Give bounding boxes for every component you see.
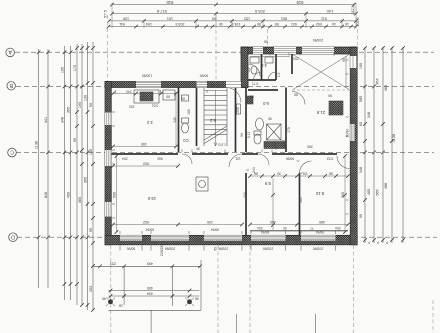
svg-text:8.10: 8.10 [315,191,324,196]
terrace hline 1 [109,290,200,292]
stair arrow line [215,90,217,146]
svg-text:341: 341 [44,117,48,123]
window left wall 2 [105,150,111,166]
terrace post 2 [185,298,194,307]
left dim line 2 [47,49,49,288]
svg-text:254: 254 [335,226,341,230]
bedroom dim line [250,224,348,226]
svg-text:260: 260 [307,145,313,149]
svg-text:365: 365 [78,197,82,203]
svg-text:565: 565 [113,192,117,198]
svg-text:90/94: 90/94 [211,228,219,232]
dashed projection x218 [217,245,219,333]
svg-text:919: 919 [296,0,304,5]
svg-text:60/94: 60/94 [146,228,154,232]
door ext room1 [254,72,262,80]
svg-text:90: 90 [257,22,261,26]
svg-text:217.5: 217.5 [351,6,355,15]
svg-text:130/90: 130/90 [142,74,152,78]
top dim left end rotated labels [104,10,108,18]
terrace texts [102,244,218,308]
right room inner dim [345,56,347,88]
svg-text:565: 565 [299,197,303,203]
svg-text:345: 345 [173,117,177,123]
svg-text:68: 68 [263,47,267,51]
terrace right edge [200,260,202,310]
svg-text:499: 499 [66,192,70,198]
door ext room2 [268,72,276,80]
svg-text:A: A [8,49,12,55]
interior wall extension horizontal [248,79,276,81]
svg-text:121: 121 [235,157,241,161]
interior wall hall right [196,88,198,147]
svg-text:99: 99 [89,228,93,232]
svg-text:90/90: 90/90 [127,246,136,250]
terrace below line [150,310,152,333]
svg-text:77: 77 [310,226,314,230]
svg-text:90/90: 90/90 [200,74,209,78]
ground line 2 [315,314,317,333]
interior wall bedroom divider [299,173,301,235]
svg-text:4: 4 [368,241,370,245]
svg-text:90: 90 [342,58,346,62]
svg-text:170: 170 [73,65,77,71]
extension bath fixtures [250,57,259,63]
shower with X [267,124,282,140]
interior wall garage left [291,54,293,74]
bedroom inner vline dim [272,178,274,230]
living inner vertical dim [116,156,118,232]
svg-text:16: 16 [332,22,336,26]
wall: right [350,47,357,245]
extension line x267.5 [267,29,269,45]
top dim row3 ticks and text [107,16,358,22]
terrace hline 2 [109,295,200,297]
svg-text:60: 60 [250,95,254,99]
svg-text:253: 253 [110,261,116,265]
door center [229,154,242,167]
svg-text:99: 99 [73,138,77,142]
svg-text:434: 434 [147,291,153,295]
svg-text:846: 846 [44,192,48,198]
dashed projection x110.8 [110,245,112,333]
interior wall center vertical lower [245,173,247,235]
room labels [146,63,325,201]
svg-text:68: 68 [264,40,268,44]
left dim ticks [37,46,95,312]
short vertical connectors between rows [112,3,356,28]
svg-text:60: 60 [359,122,363,126]
svg-text:99: 99 [89,103,93,107]
right dim line 5 [402,47,404,243]
door bedroom 2 [300,161,312,173]
bath sink [256,118,264,130]
right dim line 3 [382,47,384,243]
terrace vline 1 [123,266,125,305]
interior wall corridor/bath divider [285,88,287,153]
svg-text:90: 90 [268,117,272,121]
svg-text:99: 99 [212,16,216,20]
window right wall 1 [350,56,356,68]
door hall to living [182,154,192,164]
svg-text:130: 130 [89,149,93,155]
svg-text:502: 502 [143,220,149,224]
door top-left section [226,88,241,103]
interior wall bedroom hline second [250,230,348,232]
svg-text:254: 254 [122,157,128,161]
extension inner dim [250,56,290,58]
svg-text:0.52: 0.52 [327,157,334,161]
svg-text:0.13: 0.13 [247,132,251,139]
svg-text:161: 161 [167,16,173,20]
svg-text:90: 90 [196,147,200,151]
svg-text:175: 175 [287,127,291,133]
dashed projection x353.5 [353,245,355,333]
terrace dim line [93,265,201,267]
svg-text:911: 911 [321,16,327,20]
right wall bottom dim end marks [368,241,388,245]
svg-text:8.9: 8.9 [264,181,270,186]
bath small dark block [247,96,253,104]
svg-text:1.0 D: 1.0 D [217,143,225,147]
svg-text:480: 480 [319,220,325,224]
svg-text:0.71: 0.71 [252,82,259,86]
dashed projection x250 [249,245,251,333]
svg-text:B: B [9,82,13,88]
wc sink [182,95,189,101]
svg-text:90: 90 [283,226,287,230]
corridor radiator [237,104,241,114]
grid line C [16,151,434,153]
bath dark counter band [264,142,285,149]
svg-text:450: 450 [147,286,153,290]
door right room [292,92,305,105]
svg-text:130: 130 [83,95,87,101]
svg-text:94L: 94L [119,22,125,26]
svg-text:D: D [11,233,15,239]
svg-text:565: 565 [359,96,363,102]
svg-text:921: 921 [291,22,297,26]
svg-text:0.9: 0.9 [247,68,251,73]
svg-text:0.61: 0.61 [152,104,159,108]
svg-text:565: 565 [375,189,379,195]
svg-text:90: 90 [240,133,244,137]
svg-text:99: 99 [275,22,279,26]
svg-text:19.0: 19.0 [147,196,156,201]
interior wall kitchen/hall [178,88,180,153]
window right wall 2 [350,124,355,141]
svg-text:244: 244 [252,167,256,173]
top dim row2 ticks and text [110,9,358,15]
svg-text:194.5: 194.5 [232,22,241,26]
window bottom 1 [120,235,142,240]
svg-text:203/90: 203/90 [313,38,323,42]
svg-text:195: 195 [359,63,363,69]
dashed stub x433 [432,300,434,333]
svg-text:499: 499 [147,261,153,265]
wall: left section top [105,82,248,88]
terrace vline 2 [171,266,173,306]
misc small tick marks along walls [112,53,349,251]
svg-text:203/90: 203/90 [263,246,273,250]
svg-text:60: 60 [166,95,170,99]
grid line D [17,236,437,238]
svg-text:6.0: 6.0 [262,101,268,106]
interior wall along grid C right [272,153,337,155]
wall: bottom [105,235,357,245]
svg-text:465: 465 [384,85,388,91]
kitchen counter [134,90,159,103]
terrace bottom edge [109,309,202,311]
top dim row1 ticks [110,0,356,6]
interior wall along grid C mid [192,153,228,155]
svg-text:190: 190 [123,16,129,20]
right dim line 1 [364,47,366,243]
svg-text:193: 193 [129,105,135,109]
grid marker B [7,82,15,90]
extension line x357.5 [357,29,359,45]
door jamb marks middle band [182,149,303,173]
ground line 1 [236,314,238,333]
svg-text:917.8: 917.8 [156,9,167,14]
window top-left band [136,82,161,88]
svg-text:992: 992 [157,157,163,161]
terrace dim ticks [98,265,202,298]
svg-text:203.5: 203.5 [176,22,185,26]
svg-text:16x18: 16x18 [210,84,219,88]
window bottom 2 [151,235,189,240]
left dim line 3 [64,46,66,300]
svg-text:95: 95 [214,247,218,251]
living room dim line top [113,165,178,167]
door extension left [248,64,260,76]
svg-text:C: C [10,149,14,155]
svg-text:90/94: 90/94 [316,230,324,234]
svg-text:90: 90 [277,172,281,176]
svg-text:253: 253 [293,57,299,61]
door wall C right [337,156,350,169]
svg-text:203.5: 203.5 [356,18,360,27]
svg-text:861: 861 [281,16,287,20]
staircase [204,88,227,147]
guide dashed verticals from top dims [108,15,358,83]
svg-text:243: 243 [126,90,132,94]
top dim row4 ticks and text [107,22,358,28]
svg-text:152: 152 [244,16,250,20]
svg-text:80: 80 [181,97,185,101]
svg-text:21.9: 21.9 [316,110,325,115]
top dimension row 1 [112,4,354,6]
diagonal cross room [293,55,349,90]
bath toilet [254,134,261,144]
svg-text:244: 244 [243,192,247,198]
kitchen inner vline dim [175,92,177,146]
svg-text:245: 245 [236,107,240,113]
svg-text:465: 465 [367,189,371,195]
bedroom top dim [250,175,348,177]
svg-text:16: 16 [345,22,349,26]
window size labels [127,38,350,250]
window bottom 4 [251,235,286,240]
svg-text:88: 88 [294,93,298,97]
right room inner vertical dim [344,156,346,232]
svg-text:355: 355 [66,107,70,113]
window left wall 3 [105,202,111,217]
left dim rotated texts [34,65,93,292]
svg-text:5'7.5: 5'7.5 [104,10,108,18]
wall: left [105,82,111,245]
svg-text:203.5: 203.5 [254,9,265,14]
svg-text:910: 910 [166,0,174,5]
window bottom 5 [301,235,336,240]
window extension top 3 [302,47,334,54]
living room dim line bottom [113,224,242,226]
grid marker A [6,48,15,57]
svg-text:88: 88 [329,172,333,176]
svg-text:254: 254 [257,226,263,230]
svg-text:502: 502 [143,161,149,165]
left dim line 7 [87,42,89,310]
svg-text:565: 565 [341,192,345,198]
top dim right end rotated labels [351,6,360,27]
svg-text:185: 185 [187,109,191,115]
svg-text:365: 365 [83,177,87,183]
svg-text:348: 348 [359,167,363,173]
kitchen sink [163,90,175,100]
svg-text:954: 954 [375,78,379,84]
middle band dim line [113,146,176,148]
svg-text:190: 190 [207,220,213,224]
svg-text:101: 101 [302,172,308,176]
interior wall center vertical [245,88,247,153]
svg-text:348: 348 [60,117,64,123]
wall: extension left [241,47,248,88]
right dim ticks [363,46,405,242]
extension line x216 [215,17,217,83]
svg-text:205/250: 205/250 [160,244,164,256]
window extension top 2 [274,47,296,54]
left dim line 6 [81,44,83,305]
left dim line 5 [76,44,78,305]
left dim line 1 [38,49,40,288]
kitchen below-wall dim [113,93,176,95]
grid marker C [8,148,17,157]
svg-text:18: 18 [119,303,123,307]
grid line B [16,86,434,88]
svg-text:C0: C0 [183,138,189,143]
interior wall along grid C left [111,153,178,155]
left dim line 8 [92,42,94,310]
wc toilet left [182,123,189,133]
svg-text:092: 092 [316,22,322,26]
top dimension row 2 [112,13,356,15]
interior wall bath south [248,89,278,91]
svg-text:488: 488 [384,183,388,189]
svg-text:1138: 1138 [392,134,396,142]
svg-text:1138: 1138 [34,141,38,149]
interior wall extension bath 1 [261,54,263,80]
svg-text:140: 140 [326,9,333,14]
fireplace living room [196,177,208,191]
svg-text:60: 60 [328,94,332,98]
stair break line [204,126,227,144]
interior dim ticks [111,92,350,234]
grid line A [15,51,434,53]
svg-text:3.2: 3.2 [146,120,152,125]
svg-text:190: 190 [78,102,82,108]
interior dim texts [113,142,346,224]
svg-text:4: 4 [386,241,388,245]
kitchen stove hatched [140,92,153,101]
scattered small dimension marks middle band [122,47,346,234]
svg-text:195: 195 [60,67,64,73]
top dimension row 3 [109,20,356,22]
svg-text:348: 348 [367,112,371,118]
right dim line 4 [391,47,393,243]
window top-left 2 [197,82,208,88]
interior wall extension bath 2 [275,54,277,80]
svg-text:203/90: 203/90 [165,246,175,250]
svg-text:40: 40 [102,296,106,300]
svg-text:40: 40 [219,22,223,26]
door bedroom 1 [258,154,269,165]
svg-text:4: 4 [377,241,379,245]
terrace post 1 [106,298,115,307]
window bottom 3 [204,235,242,240]
svg-text:5.2: 5.2 [209,118,215,123]
svg-text:194: 194 [146,22,152,26]
right dim rotated texts [359,63,396,218]
svg-text:4.0: 4.0 [260,63,266,68]
dark utility square [329,101,343,115]
svg-text:460: 460 [270,220,276,224]
svg-text:40: 40 [195,296,199,300]
svg-text:90/90: 90/90 [286,157,294,161]
extension line x107.5 [107,15,109,83]
svg-text:1.0: 1.0 [277,73,281,78]
interior wall stairs right [235,88,237,153]
right dim line 2 [373,47,375,243]
window extension top 1 [253,47,263,54]
wall: extension top [241,47,357,54]
door gap top wall [226,82,241,88]
svg-text:203/90: 203/90 [313,246,323,250]
top dimension row 4 [109,26,357,28]
window left wall 1 [105,113,111,126]
door bath lower [276,140,286,150]
svg-text:99: 99 [359,214,363,218]
left dim line 4 [70,46,72,300]
svg-text:203/90: 203/90 [218,246,228,250]
svg-text:150: 150 [141,142,147,146]
dashed opening below X room [292,89,350,91]
svg-text:253: 253 [89,286,93,292]
grid marker D [9,233,18,242]
